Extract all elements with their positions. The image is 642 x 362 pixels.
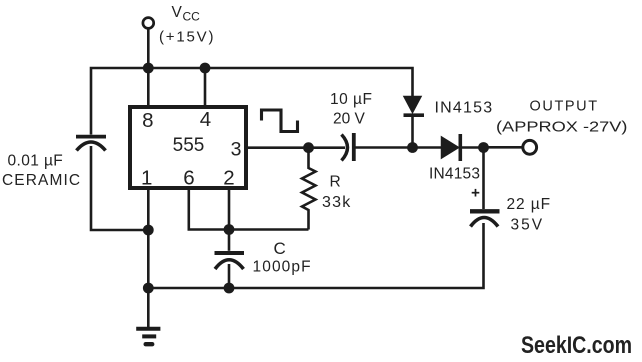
resistor R 33k	[302, 148, 316, 230]
wire pin 4 lead	[204, 68, 207, 106]
svg-text:IN4153: IN4153	[429, 166, 480, 183]
wire node to series diode	[413, 146, 443, 149]
wire ceramic cap bottom lead to pin 1 node	[91, 146, 146, 230]
svg-text:V: V	[172, 4, 183, 21]
node supply-pin8 junction	[143, 63, 154, 74]
label (+15V)	[159, 29, 215, 46]
label + polarity	[472, 189, 480, 197]
diode D2 IN4153 series	[442, 134, 461, 161]
label C	[274, 239, 286, 258]
svg-text:0.01 µF: 0.01 µF	[8, 153, 64, 170]
svg-text:4: 4	[200, 108, 211, 131]
terminal OUTPUT	[523, 140, 537, 154]
node pin1-ceramic junction	[143, 225, 154, 236]
svg-text:35V: 35V	[511, 217, 545, 234]
label SeekIC.com watermark	[521, 332, 632, 359]
diode D1 IN4153 vertical	[404, 97, 425, 148]
label 10uF	[330, 91, 372, 108]
label 1000pF	[253, 259, 312, 276]
label 22uF	[507, 196, 551, 213]
svg-text:C: C	[274, 239, 286, 258]
node capC-bus junction	[224, 283, 235, 294]
wire cap to diode node	[355, 146, 413, 149]
svg-text:20 V: 20 V	[333, 111, 366, 128]
svg-text:(+15V): (+15V)	[159, 29, 215, 46]
svg-text:1: 1	[141, 166, 152, 189]
node diode junction	[407, 142, 418, 153]
node pin2 junction	[224, 224, 235, 235]
wire pin 3 output lead	[248, 146, 345, 149]
svg-text:10 µF: 10 µF	[330, 91, 372, 108]
wire pin 8 lead	[147, 68, 150, 106]
label CERAMIC	[2, 172, 81, 189]
wire pin 2 lead down	[228, 190, 231, 251]
label 35V	[511, 217, 545, 234]
svg-text:3: 3	[231, 139, 242, 161]
svg-text:8: 8	[142, 109, 153, 132]
op-amp U1 555 timer box	[130, 107, 246, 188]
svg-text:6: 6	[183, 166, 194, 189]
svg-text:SeekIC.com: SeekIC.com	[521, 332, 632, 359]
wire pin 6 to resistor bottom	[189, 190, 309, 230]
wire cap C bottom lead	[228, 264, 231, 288]
node supply-pin4 junction	[200, 63, 211, 74]
capacitor 10uF coupling	[342, 133, 354, 161]
label IN4153 bottom	[429, 166, 480, 183]
svg-text:1000pF: 1000pF	[253, 259, 312, 276]
svg-text:IN4153: IN4153	[435, 100, 494, 117]
svg-text:22 µF: 22 µF	[507, 196, 551, 213]
svg-text:CC: CC	[183, 10, 201, 24]
wire top supply bus with left drop and right drop	[91, 68, 413, 135]
node pin3-resistor junction	[303, 142, 314, 153]
capacitor C 1000pF	[215, 253, 245, 269]
label R	[330, 173, 341, 190]
svg-text:33k: 33k	[322, 194, 351, 211]
wire pin 1 lead down	[147, 190, 150, 288]
capacitor 0.01uF ceramic	[76, 137, 106, 151]
svg-text:R: R	[330, 173, 341, 190]
terminal Vcc	[143, 18, 154, 68]
node ground-pin1 junction	[143, 283, 154, 294]
wire bottom ground bus with right riser	[148, 223, 483, 288]
label 0.01uF	[8, 153, 64, 170]
node output junction	[478, 142, 489, 153]
wire to output terminal	[484, 146, 522, 149]
svg-text:CERAMIC: CERAMIC	[2, 172, 81, 189]
label 20V	[333, 111, 366, 128]
label IN4153 top	[435, 100, 494, 117]
svg-text:(APPROX -27V): (APPROX -27V)	[496, 119, 628, 136]
label 33k	[322, 194, 351, 211]
label OUTPUT	[530, 98, 599, 114]
capacitor 22uF electrolytic	[470, 148, 500, 227]
square wave symbol	[262, 110, 298, 132]
svg-text:2: 2	[223, 166, 234, 189]
svg-text:OUTPUT: OUTPUT	[530, 98, 599, 114]
svg-text:555: 555	[173, 135, 205, 156]
label Vcc	[172, 4, 201, 24]
wire diode to output node	[460, 146, 483, 149]
ground	[136, 288, 160, 344]
label APPROX -27V	[496, 119, 628, 136]
